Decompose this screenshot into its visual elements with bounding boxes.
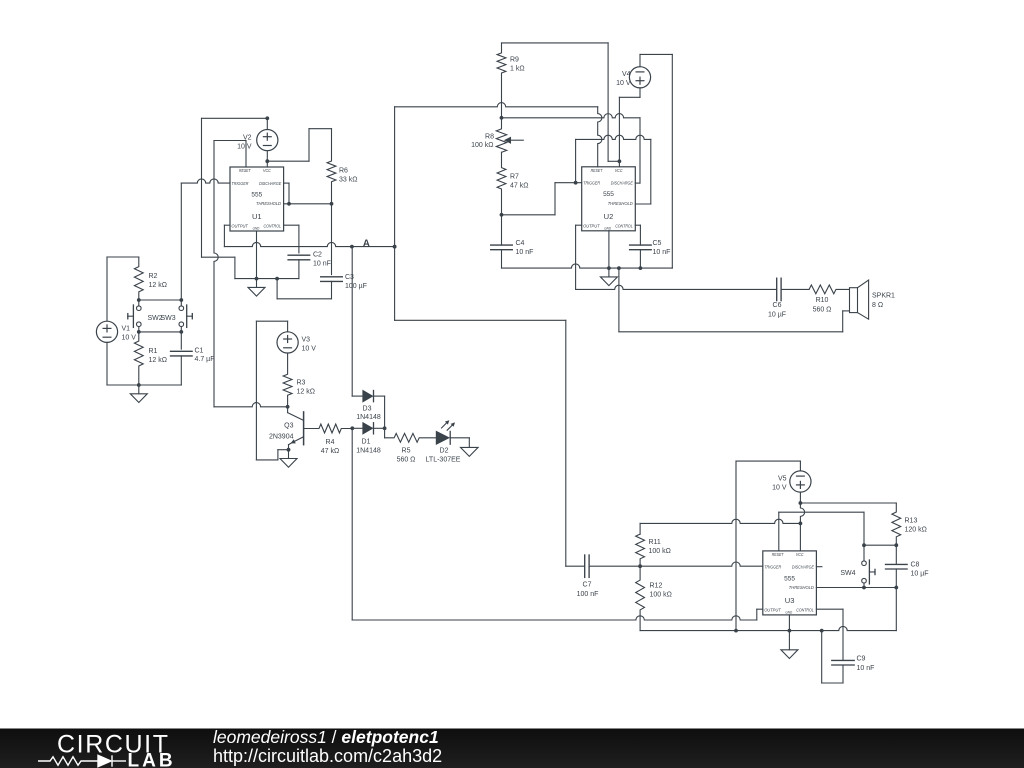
svg-text:R6: R6 <box>339 168 348 175</box>
svg-text:C2: C2 <box>313 252 322 259</box>
svg-text:C8: C8 <box>911 562 920 569</box>
svg-text:10 nF: 10 nF <box>653 249 671 256</box>
svg-text:47 kΩ: 47 kΩ <box>510 183 528 190</box>
svg-text:1N4148: 1N4148 <box>356 414 381 421</box>
svg-text:U3: U3 <box>785 596 795 605</box>
svg-text:DISCHARGE: DISCHARGE <box>259 181 281 186</box>
svg-text:10 V: 10 V <box>122 335 137 342</box>
svg-text:560 Ω: 560 Ω <box>813 307 832 314</box>
svg-text:12 kΩ: 12 kΩ <box>297 389 315 396</box>
svg-text:CONTROL: CONTROL <box>264 224 282 229</box>
svg-text:A: A <box>363 238 370 249</box>
svg-text:VCC: VCC <box>615 168 623 173</box>
svg-text:OUTPUT: OUTPUT <box>764 607 781 612</box>
svg-text:555: 555 <box>784 575 795 582</box>
svg-text:U1: U1 <box>252 212 262 221</box>
svg-text:TRIGGER: TRIGGER <box>764 565 782 570</box>
svg-text:R10: R10 <box>816 297 829 304</box>
svg-text:100 nF: 100 nF <box>577 591 599 598</box>
svg-text:12 kΩ: 12 kΩ <box>149 357 167 364</box>
svg-text:http://circuitlab.com/c2ah3d2: http://circuitlab.com/c2ah3d2 <box>213 746 442 766</box>
svg-text:THRESHOLD: THRESHOLD <box>608 201 634 206</box>
svg-text:100 kΩ: 100 kΩ <box>471 142 493 149</box>
svg-text:100 µF: 100 µF <box>345 283 367 290</box>
svg-text:GND: GND <box>785 611 792 615</box>
svg-text:CONTROL: CONTROL <box>796 607 814 612</box>
svg-text:C4: C4 <box>516 240 525 247</box>
svg-text:R4: R4 <box>326 439 335 446</box>
svg-text:C5: C5 <box>653 240 662 247</box>
svg-text:10 nF: 10 nF <box>313 261 331 268</box>
svg-text:10 V: 10 V <box>237 144 252 151</box>
svg-text:RESET: RESET <box>239 168 251 173</box>
svg-text:555: 555 <box>603 191 614 198</box>
svg-text:1N4148: 1N4148 <box>356 448 381 455</box>
svg-text:OUTPUT: OUTPUT <box>583 223 600 228</box>
svg-text:D3: D3 <box>363 406 372 413</box>
svg-text:V4: V4 <box>622 71 631 78</box>
svg-text:CONTROL: CONTROL <box>615 223 633 228</box>
svg-text:10 nF: 10 nF <box>516 249 534 256</box>
svg-text:TRIGGER: TRIGGER <box>232 181 250 186</box>
svg-text:C7: C7 <box>583 582 592 589</box>
svg-text:V1: V1 <box>122 326 131 333</box>
svg-text:4.7 µF: 4.7 µF <box>195 356 215 363</box>
svg-text:10 nF: 10 nF <box>857 665 875 672</box>
svg-text:R1: R1 <box>149 348 158 355</box>
svg-text:555: 555 <box>251 191 262 198</box>
svg-text:V3: V3 <box>302 337 311 344</box>
svg-text:RESET: RESET <box>772 552 784 557</box>
svg-text:V2: V2 <box>243 135 252 142</box>
svg-text:R9: R9 <box>510 57 519 64</box>
svg-text:SW3: SW3 <box>161 315 176 322</box>
svg-text:DISCHARGE: DISCHARGE <box>792 565 814 570</box>
svg-text:VCC: VCC <box>263 168 271 173</box>
svg-text:U2: U2 <box>604 212 614 221</box>
svg-text:R2: R2 <box>149 273 158 280</box>
svg-text:47 kΩ: 47 kΩ <box>321 448 339 455</box>
svg-text:DISCHARGE: DISCHARGE <box>611 181 633 186</box>
svg-text:C1: C1 <box>195 348 204 355</box>
svg-text:8 Ω: 8 Ω <box>872 302 883 309</box>
svg-text:THRESHOLD: THRESHOLD <box>789 585 815 590</box>
svg-text:R5: R5 <box>402 448 411 455</box>
svg-text:560 Ω: 560 Ω <box>397 457 416 464</box>
svg-text:R13: R13 <box>905 518 918 525</box>
svg-text:10 µF: 10 µF <box>768 312 786 319</box>
svg-text:C6: C6 <box>773 302 782 309</box>
svg-text:33 kΩ: 33 kΩ <box>339 177 357 184</box>
svg-text:R3: R3 <box>297 380 306 387</box>
svg-text:R12: R12 <box>650 583 663 590</box>
svg-text:GND: GND <box>253 227 260 231</box>
svg-text:SPKR1: SPKR1 <box>872 293 895 300</box>
svg-text:OUTPUT: OUTPUT <box>231 224 248 229</box>
svg-text:1 kΩ: 1 kΩ <box>510 66 525 73</box>
svg-text:10 µF: 10 µF <box>911 571 929 578</box>
svg-text:120 kΩ: 120 kΩ <box>905 527 927 534</box>
svg-text:Q3: Q3 <box>284 423 293 430</box>
svg-text:THRESHOLD: THRESHOLD <box>256 201 282 206</box>
svg-text:GND: GND <box>604 226 611 230</box>
svg-text:100 kΩ: 100 kΩ <box>650 592 672 599</box>
svg-text:12 kΩ: 12 kΩ <box>149 282 167 289</box>
svg-text:SW4: SW4 <box>840 570 855 577</box>
svg-text:D1: D1 <box>362 439 371 446</box>
svg-text:100 kΩ: 100 kΩ <box>649 548 671 555</box>
svg-text:R11: R11 <box>649 539 661 546</box>
svg-text:leomedeiross1 / eletpotenc1: leomedeiross1 / eletpotenc1 <box>213 727 439 747</box>
svg-text:2N3904: 2N3904 <box>269 434 294 441</box>
svg-text:10 V: 10 V <box>302 346 317 353</box>
svg-text:TRIGGER: TRIGGER <box>583 181 601 186</box>
svg-text:V5: V5 <box>778 476 787 483</box>
svg-text:R8: R8 <box>485 134 494 141</box>
svg-text:C9: C9 <box>857 656 866 663</box>
svg-text:D2: D2 <box>440 448 449 455</box>
svg-text:10 V: 10 V <box>616 80 631 87</box>
svg-text:RESET: RESET <box>591 168 603 173</box>
svg-text:VCC: VCC <box>796 552 804 557</box>
svg-text:LAB: LAB <box>128 751 176 768</box>
svg-text:LTL-307EE: LTL-307EE <box>426 457 461 464</box>
svg-text:10 V: 10 V <box>772 485 787 492</box>
svg-text:R7: R7 <box>510 174 519 181</box>
svg-text:C3: C3 <box>345 274 354 281</box>
